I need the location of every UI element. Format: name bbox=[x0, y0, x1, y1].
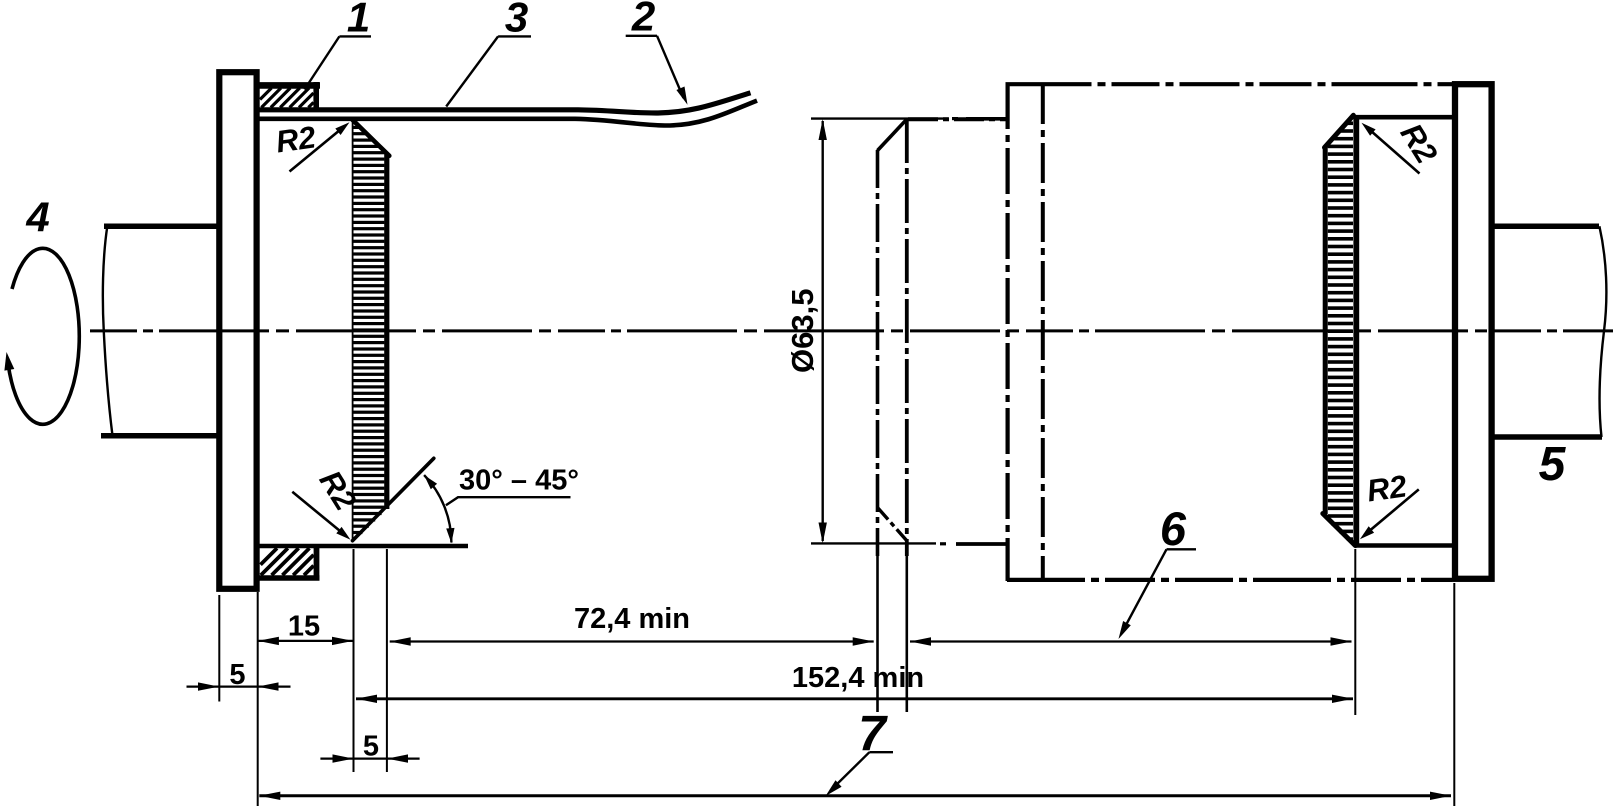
svg-text:5: 5 bbox=[229, 659, 245, 691]
dimension 15 bbox=[258, 611, 353, 646]
callout 1 text and leader bbox=[305, 0, 372, 90]
R2 label bottom-right bbox=[1360, 468, 1419, 539]
dimension diameter 63.5 bbox=[785, 119, 948, 544]
right drive shaft bbox=[1491, 226, 1606, 437]
dimension 5 flange thickness bbox=[187, 659, 291, 691]
extension lines left bbox=[219, 549, 387, 806]
svg-text:2: 2 bbox=[631, 0, 655, 40]
phantom pipe end (dash-dot) bbox=[878, 119, 1008, 556]
svg-text:152,4 min: 152,4 min bbox=[792, 662, 924, 694]
right flange plate bbox=[1455, 84, 1492, 579]
callout 4 text bbox=[25, 194, 49, 241]
right fixture body phantom outline bbox=[908, 83, 1452, 581]
R2 label top-left bbox=[274, 119, 350, 171]
angle text 30-45 bbox=[446, 465, 579, 506]
left flange plate bbox=[219, 72, 256, 589]
callout 5 text bbox=[1539, 438, 1567, 491]
svg-text:Ø63,5: Ø63,5 bbox=[785, 289, 820, 373]
callout 3 text and leader bbox=[446, 0, 531, 107]
svg-text:5: 5 bbox=[1539, 438, 1567, 491]
right pipe bottom face line bbox=[1355, 543, 1452, 548]
hatched gasket block bottom bbox=[258, 546, 320, 580]
dimension line for callout 6 bbox=[910, 637, 1352, 645]
svg-text:5: 5 bbox=[363, 731, 379, 763]
R2 label top-right bbox=[1362, 117, 1445, 173]
svg-text:15: 15 bbox=[288, 611, 320, 643]
left pipe bottom face line bbox=[258, 544, 469, 549]
dimension line for callout 7 bbox=[259, 792, 1451, 800]
svg-text:3: 3 bbox=[505, 0, 528, 41]
dimension 152,4 min bbox=[356, 662, 1353, 703]
right pipe serrated end face bbox=[1323, 115, 1357, 545]
svg-text:1: 1 bbox=[347, 0, 370, 41]
svg-text:6: 6 bbox=[1160, 502, 1187, 555]
svg-text:R2: R2 bbox=[1365, 468, 1409, 508]
callout 2 text and leader with arrow bbox=[626, 0, 688, 105]
angle dimension arc 30-45 bbox=[424, 475, 454, 543]
capillary tube (item 3) top line bbox=[258, 93, 751, 113]
callout 7 text and leader bbox=[826, 706, 893, 797]
svg-text:R2: R2 bbox=[274, 119, 318, 159]
svg-text:30° – 45°: 30° – 45° bbox=[459, 465, 579, 497]
R2 label bottom-left bbox=[292, 464, 363, 539]
svg-text:4: 4 bbox=[25, 194, 49, 241]
svg-text:72,4 min: 72,4 min bbox=[574, 603, 690, 635]
left pipe serrated end face bbox=[353, 120, 390, 540]
right pipe top face line bbox=[1353, 115, 1452, 120]
centerline axis bbox=[90, 329, 1613, 332]
extension lines right bbox=[1355, 549, 1454, 806]
rotation arrow (callout 4 symbol) bbox=[4, 248, 79, 424]
chamfer construction line 30-45deg bbox=[353, 458, 434, 540]
capillary tube / cable bottom line bbox=[258, 101, 757, 126]
dimension 5 band width bbox=[320, 731, 419, 763]
dimension 72,4 min bbox=[390, 603, 874, 646]
phantom pipe extension lines bbox=[878, 552, 907, 712]
callout 6 text and leader bbox=[1119, 502, 1197, 639]
hatched gasket block top (item 1) bbox=[258, 82, 320, 109]
left drive shaft bbox=[101, 226, 219, 435]
